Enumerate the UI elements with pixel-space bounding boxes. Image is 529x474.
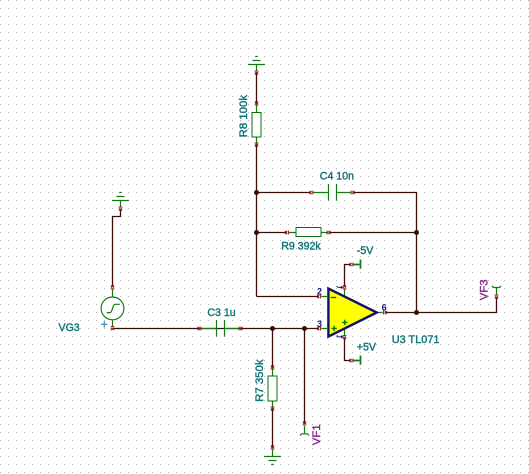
svg-text:+5V: +5V [357, 341, 377, 353]
svg-text:VG3: VG3 [59, 322, 80, 334]
svg-text:-5V: -5V [357, 245, 374, 257]
svg-text:C3 1u: C3 1u [207, 307, 235, 319]
svg-text:R8 100k: R8 100k [238, 95, 250, 138]
svg-text:VF3: VF3 [479, 279, 491, 300]
svg-text:6: 6 [382, 303, 387, 313]
svg-text:C4 10n: C4 10n [320, 170, 354, 182]
svg-text:2: 2 [317, 286, 322, 296]
svg-text:3: 3 [317, 319, 322, 329]
svg-text:R9 392k: R9 392k [281, 240, 321, 252]
svg-text:U3 TL071: U3 TL071 [392, 334, 440, 346]
svg-text:VF1: VF1 [311, 424, 323, 445]
svg-text:R7 350k: R7 350k [254, 359, 266, 402]
